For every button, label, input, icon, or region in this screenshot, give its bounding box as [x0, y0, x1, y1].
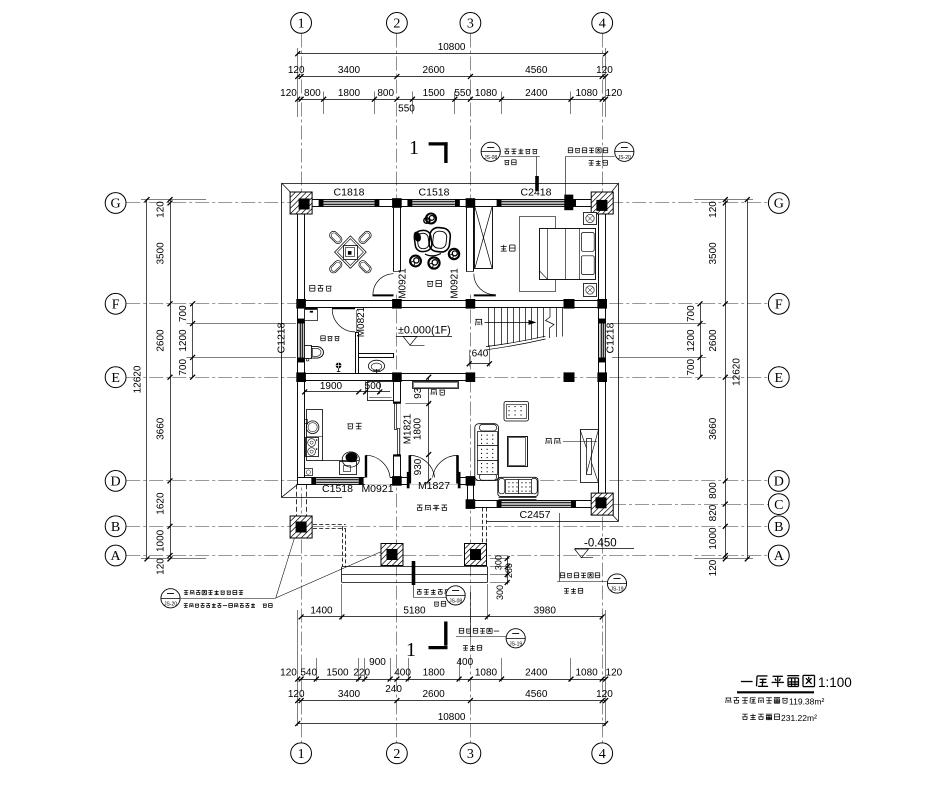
leader wall detail 2 (right)	[560, 573, 599, 578]
svg-text:700: 700	[686, 305, 697, 322]
decorative corner column axis1xG	[290, 192, 312, 214]
hall shoe cabinet	[413, 382, 459, 389]
svg-text:231.22m²: 231.22m²	[781, 713, 817, 723]
svg-text:300: 300	[495, 585, 505, 600]
stair up arrow	[485, 322, 535, 324]
svg-text:120: 120	[156, 201, 167, 218]
svg-text:120: 120	[708, 201, 719, 218]
svg-text:M0921: M0921	[361, 483, 393, 495]
wall axis2 upper (between rooms)	[394, 207, 401, 272]
axis bubbles left	[105, 193, 126, 214]
svg-text:2400: 2400	[525, 88, 548, 99]
dim 640	[469, 363, 489, 365]
svg-text:700: 700	[178, 305, 189, 322]
svg-text:M0821: M0821	[356, 306, 367, 337]
window C2418	[497, 200, 502, 206]
decorative column axis1xB	[290, 516, 312, 538]
title	[741, 675, 815, 687]
axis grid lines	[301, 34, 303, 743]
svg-text:4: 4	[599, 747, 606, 762]
svg-text:G: G	[111, 197, 121, 212]
wall axis F	[298, 301, 606, 308]
svg-text:1400: 1400	[310, 606, 333, 617]
svg-text:M1827: M1827	[418, 480, 450, 492]
svg-text:500: 500	[365, 381, 382, 392]
axis bubbles bottom	[291, 743, 312, 764]
svg-text:4: 4	[599, 17, 606, 32]
svg-text:A: A	[774, 549, 785, 564]
svg-text:3500: 3500	[708, 242, 719, 265]
svg-text:240: 240	[385, 684, 402, 695]
svg-text:1080: 1080	[475, 88, 498, 99]
door M0821 bathroom	[356, 310, 358, 332]
svg-text:E: E	[111, 371, 120, 386]
svg-text:12620: 12620	[731, 358, 742, 386]
door opening M0821 bathroom	[355, 308, 359, 332]
svg-text:C1518: C1518	[322, 483, 353, 495]
svg-text:820: 820	[708, 504, 719, 521]
svg-text:1080: 1080	[575, 668, 598, 679]
svg-text:1: 1	[406, 639, 416, 661]
svg-text:1000: 1000	[708, 527, 719, 550]
window C1218 right	[599, 319, 605, 324]
bottom dimensions	[301, 616, 602, 618]
svg-text:3500: 3500	[156, 242, 167, 265]
svg-text:1800: 1800	[413, 417, 424, 440]
wall south-left (axis D)	[298, 478, 474, 485]
svg-text:1: 1	[298, 747, 305, 762]
kitchen misc	[305, 469, 313, 476]
steps dim 300/280/300	[507, 556, 509, 585]
coffee table	[508, 437, 528, 467]
svg-text:400: 400	[394, 668, 411, 679]
svg-text:2600: 2600	[422, 65, 445, 76]
svg-text:2600: 2600	[156, 329, 167, 352]
svg-text:550: 550	[454, 88, 471, 99]
door opening M0921 chess room (axis2 wall)	[393, 272, 401, 295]
wall axis3 upper	[467, 207, 474, 272]
left dimensions	[146, 200, 148, 559]
mahjong table chess room	[335, 236, 367, 268]
svg-text:3660: 3660	[156, 417, 167, 440]
TV cabinet	[581, 430, 599, 483]
svg-text:3: 3	[467, 747, 474, 762]
svg-text:1:100: 1:100	[818, 675, 852, 690]
wall south-right (axis C)	[468, 501, 606, 508]
svg-text:F: F	[775, 298, 783, 313]
svg-text:900: 900	[369, 657, 386, 668]
svg-text:1500: 1500	[326, 668, 349, 679]
svg-text:2600: 2600	[708, 329, 719, 352]
svg-text:800: 800	[304, 88, 321, 99]
top dimensions	[298, 53, 606, 55]
svg-text:1200: 1200	[686, 329, 697, 352]
svg-text:930: 930	[413, 458, 424, 475]
window C1818	[319, 200, 324, 206]
window C1218 left	[298, 319, 304, 324]
sofa south 2-seat	[498, 477, 538, 496]
axis bubbles right	[768, 193, 789, 214]
dim 930/1800/930 on axis2 wall	[428, 377, 430, 481]
svg-text:M0921: M0921	[450, 268, 461, 299]
svg-text:800: 800	[377, 88, 394, 99]
svg-text:1080: 1080	[575, 88, 598, 99]
svg-text:3400: 3400	[338, 689, 361, 700]
svg-text:5180: 5180	[403, 606, 426, 617]
svg-text:C1218: C1218	[276, 322, 288, 353]
bed	[540, 229, 596, 280]
kitchen sink	[306, 421, 319, 434]
svg-text:2: 2	[393, 17, 400, 32]
platform steps	[342, 566, 488, 568]
hall cabinet under niche	[368, 382, 394, 401]
svg-text:1080: 1080	[475, 668, 498, 679]
svg-text:1000: 1000	[156, 529, 167, 552]
svg-text:3660: 3660	[708, 417, 719, 440]
svg-text:120: 120	[280, 668, 297, 679]
window C2457	[497, 501, 502, 507]
svg-text:C1818: C1818	[334, 187, 365, 199]
svg-text:1900: 1900	[320, 381, 343, 392]
svg-text:400: 400	[456, 657, 473, 668]
svg-text:10800: 10800	[438, 712, 466, 723]
wall axis3 lower (living west)	[468, 478, 474, 508]
svg-text:1620: 1620	[156, 492, 167, 515]
svg-text:1500: 1500	[423, 88, 446, 99]
svg-text:120: 120	[280, 88, 297, 99]
svg-text:D: D	[774, 475, 784, 490]
bathroom washer	[305, 308, 318, 321]
svg-text:640: 640	[472, 349, 489, 360]
area notes	[726, 698, 740, 704]
tea room furniture	[426, 214, 436, 224]
structural columns	[564, 195, 573, 211]
note decorative column (bottom-left)	[161, 589, 180, 608]
window C1518 (north)	[407, 200, 412, 206]
leader concrete apron (top)	[481, 142, 500, 161]
svg-text:2600: 2600	[422, 689, 445, 700]
svg-text:120: 120	[596, 689, 613, 700]
svg-text:F: F	[112, 298, 120, 313]
wall east (axis 4)	[599, 200, 606, 508]
svg-text:JS-19: JS-19	[610, 587, 623, 593]
sofa west 3-seat	[475, 424, 499, 481]
svg-text:2: 2	[393, 747, 400, 762]
svg-text:B: B	[111, 520, 120, 535]
svg-text:C1518: C1518	[419, 187, 450, 199]
svg-text:1800: 1800	[338, 88, 361, 99]
svg-text:1: 1	[298, 17, 305, 32]
door opening M1827 entry (D wall)	[408, 477, 459, 485]
svg-text:120: 120	[596, 65, 613, 76]
svg-text:D: D	[111, 475, 121, 490]
svg-text:1: 1	[409, 137, 419, 159]
sliding door M1821	[395, 404, 397, 430]
svg-text:C2457: C2457	[520, 509, 551, 521]
svg-text:G: G	[774, 197, 784, 212]
room labels	[310, 285, 332, 291]
floor drain	[336, 363, 342, 369]
svg-text:±0.000(1F): ±0.000(1F)	[398, 325, 451, 337]
svg-text:280: 280	[504, 563, 514, 578]
kitchen counter	[307, 410, 323, 461]
wall west (axis 1)	[298, 200, 305, 485]
tea sofa	[413, 229, 432, 252]
dim 1900/500 below E wall	[305, 391, 390, 393]
svg-text:1200: 1200	[178, 329, 189, 352]
svg-text:JS-08: JS-08	[484, 155, 497, 161]
porch dashed boundary left	[313, 524, 346, 526]
svg-text:3980: 3980	[534, 606, 557, 617]
eave outline	[281, 184, 283, 498]
living armchair north	[504, 402, 529, 422]
svg-text:3400: 3400	[338, 65, 361, 76]
door opening M0921 kitchen (D wall)	[365, 477, 390, 485]
door M0921 kitchen	[365, 455, 367, 477]
stair break line	[546, 307, 555, 338]
wall axis E (left part)	[298, 374, 474, 381]
bedroom rug	[520, 217, 556, 292]
svg-text:JS-08: JS-08	[449, 598, 462, 604]
toilet	[305, 346, 312, 359]
svg-text:M0921: M0921	[398, 268, 409, 299]
svg-text:C: C	[774, 498, 783, 513]
right dimensions	[747, 200, 749, 559]
svg-text:120: 120	[708, 559, 719, 576]
porch dashed boundary right	[482, 508, 484, 544]
svg-text:300: 300	[493, 555, 503, 570]
svg-text:12620: 12620	[133, 365, 144, 393]
stove	[306, 438, 319, 457]
svg-text:119.38m²: 119.38m²	[789, 697, 824, 707]
svg-text:220: 220	[353, 668, 370, 679]
svg-text:700: 700	[686, 359, 697, 376]
svg-text:4560: 4560	[525, 65, 548, 76]
svg-text:A: A	[111, 549, 122, 564]
svg-text:1800: 1800	[423, 668, 446, 679]
door M0921 tea room/bedroom	[474, 294, 496, 296]
svg-text:2400: 2400	[525, 668, 548, 679]
wall axis2 lower (kitchen east)	[394, 381, 401, 478]
svg-text:800: 800	[708, 482, 719, 499]
axis bubbles top	[291, 13, 312, 34]
basin niche wall	[359, 354, 394, 358]
svg-text:10800: 10800	[438, 42, 466, 53]
nightstands	[584, 213, 597, 225]
porch column right	[465, 544, 487, 566]
svg-text:-0.450: -0.450	[584, 538, 617, 550]
svg-text:B: B	[774, 520, 783, 535]
door opening M0921 tea room (axis3 wall)	[467, 272, 475, 295]
window C1518 (kitchen south)	[311, 478, 316, 484]
leader wall detail 2 (top)	[568, 148, 607, 153]
svg-text:120: 120	[288, 689, 305, 700]
door M0921 chess room	[373, 294, 394, 296]
svg-text:120: 120	[606, 88, 623, 99]
svg-text:3: 3	[467, 17, 474, 32]
svg-text:120: 120	[288, 65, 305, 76]
door M1827 entry double	[409, 455, 412, 483]
svg-text:4560: 4560	[525, 689, 548, 700]
svg-text:JS-20: JS-20	[618, 155, 631, 161]
svg-text:700: 700	[178, 359, 189, 376]
door opening M1821 sliding (axis2 wall)	[393, 404, 401, 455]
svg-text:JS-19: JS-19	[509, 641, 522, 647]
svg-text:C1218: C1218	[605, 322, 617, 353]
west wall stub D to B	[296, 484, 298, 516]
wardrobe	[475, 207, 493, 269]
bathroom east wall	[356, 333, 359, 374]
stairs	[488, 307, 490, 347]
eave corner diagonals	[282, 183, 298, 200]
decorative corner column axis4xG	[591, 192, 613, 214]
svg-text:120: 120	[156, 558, 167, 575]
washbasin	[368, 360, 384, 372]
svg-text:540: 540	[300, 668, 317, 679]
leader wall detail 1 (bottom)	[459, 628, 499, 633]
svg-text:JS-20: JS-20	[164, 601, 177, 607]
porch column left	[381, 544, 403, 566]
decorative corner column axis4xC	[591, 493, 613, 515]
leader concrete steps (bottom)	[417, 589, 450, 594]
svg-text:120: 120	[606, 668, 623, 679]
wall north (axis G)	[298, 200, 606, 207]
svg-text:E: E	[775, 371, 784, 386]
